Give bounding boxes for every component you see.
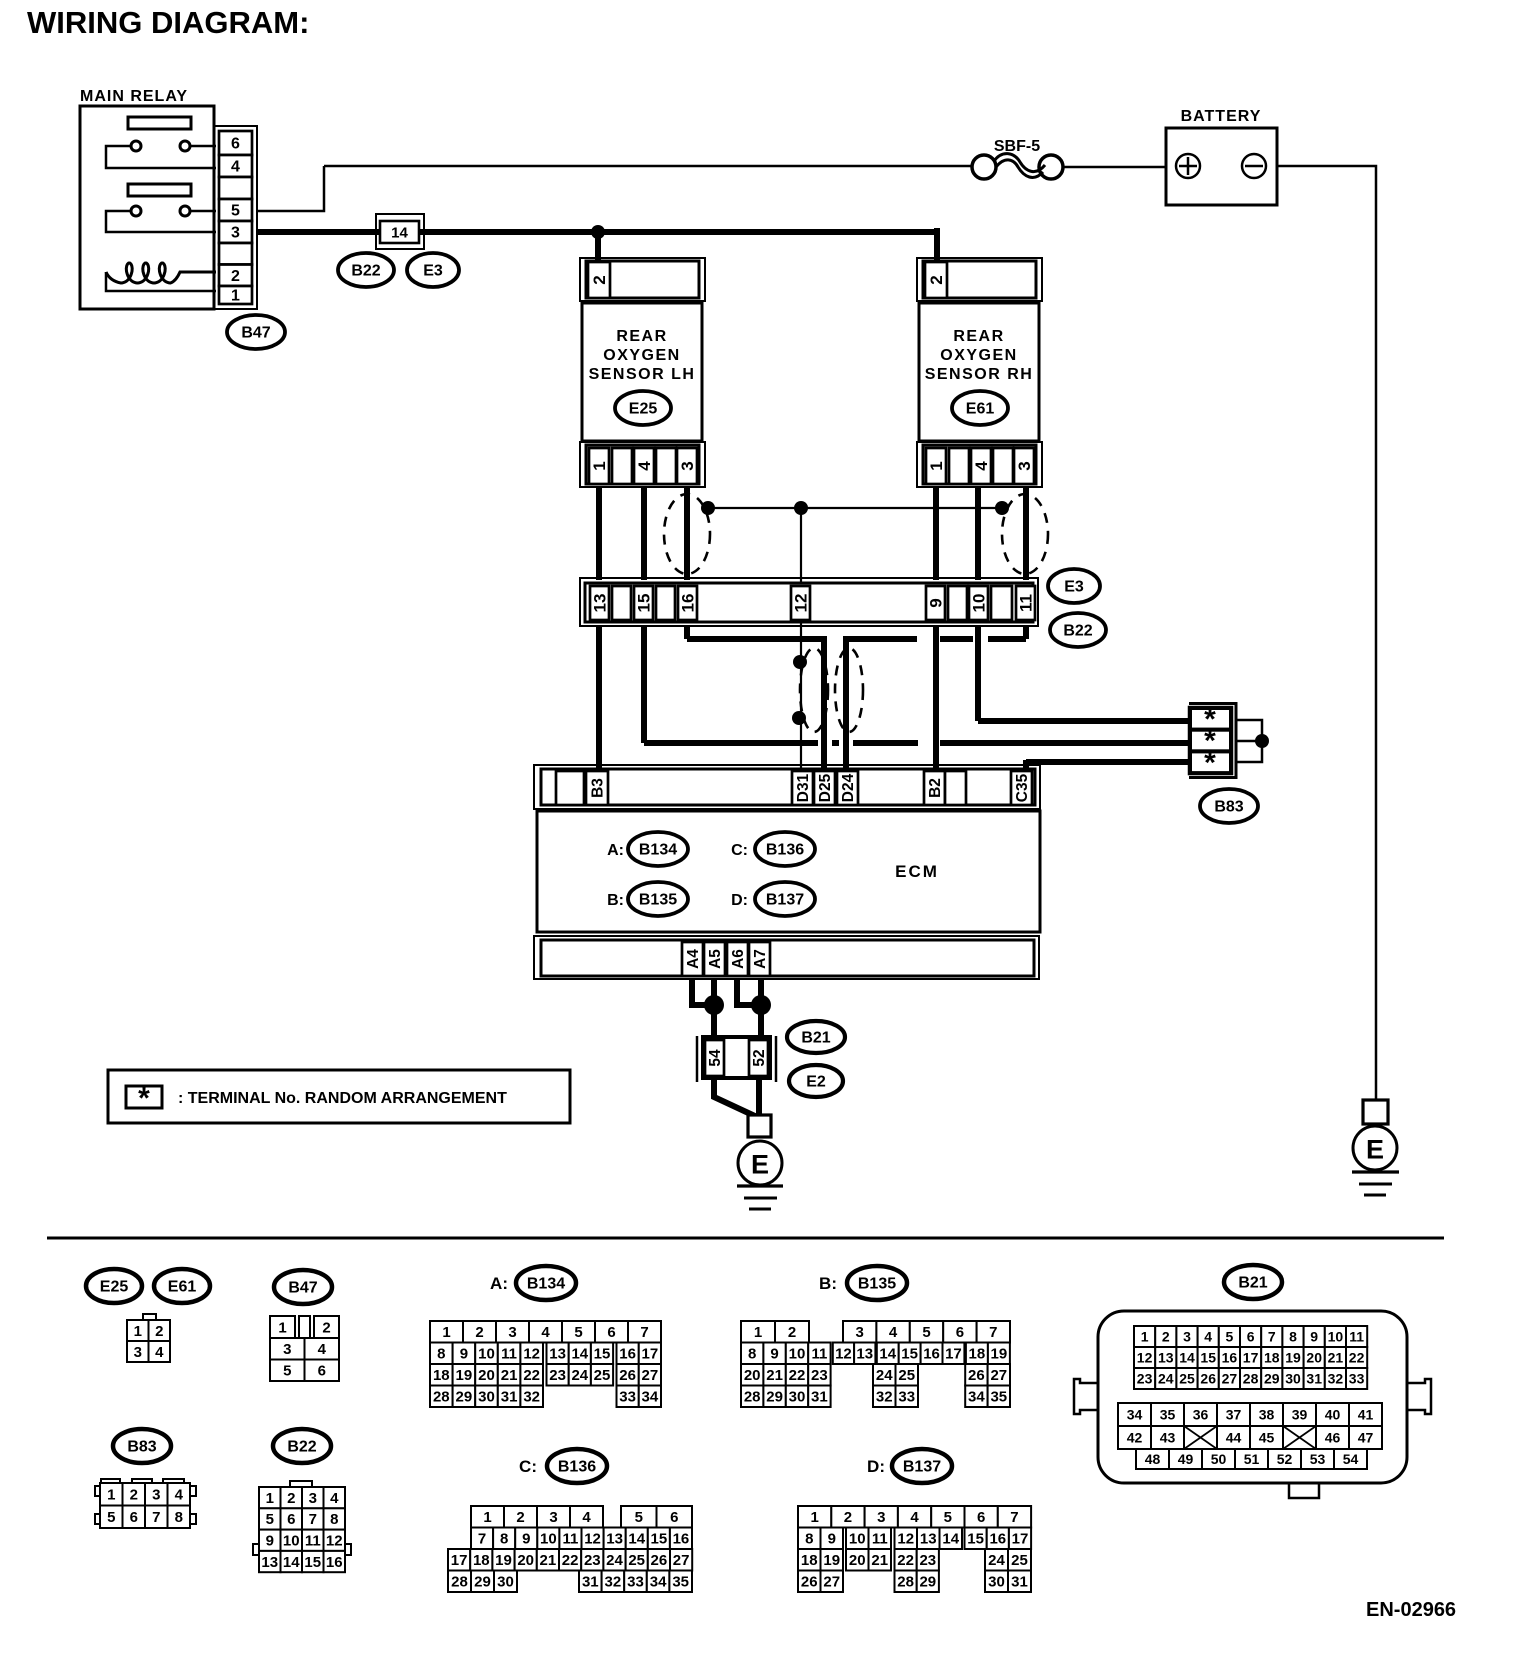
svg-text:15: 15	[594, 1346, 611, 1363]
wire LH pin1 to 13	[596, 487, 602, 580]
svg-text:17: 17	[451, 1552, 468, 1569]
svg-text:28: 28	[451, 1574, 468, 1591]
svg-text:D25: D25	[817, 773, 834, 802]
wire SBF-5 to battery	[1063, 166, 1166, 169]
connector label B47	[227, 315, 285, 349]
connector B83 random-arrangement pins	[1189, 702, 1238, 779]
svg-text:7: 7	[309, 1511, 317, 1528]
pinout grid B21	[1074, 1311, 1431, 1498]
svg-text:32: 32	[876, 1389, 893, 1406]
main relay box	[80, 106, 214, 309]
right ground E	[1352, 1124, 1399, 1195]
svg-text:12: 12	[897, 1531, 914, 1548]
svg-text:33: 33	[619, 1389, 636, 1406]
svg-text:32: 32	[523, 1389, 540, 1406]
svg-text:18: 18	[969, 1346, 986, 1363]
junction shield mid	[794, 501, 808, 515]
svg-text:35: 35	[672, 1574, 689, 1591]
svg-text:8: 8	[748, 1346, 756, 1363]
document number	[1366, 1599, 1456, 1621]
svg-text:3: 3	[549, 1509, 557, 1526]
svg-text:29: 29	[919, 1574, 936, 1591]
svg-text:8: 8	[175, 1509, 183, 1526]
svg-text:7: 7	[989, 1324, 997, 1341]
svg-text:19: 19	[1285, 1349, 1301, 1365]
svg-text:6: 6	[670, 1509, 678, 1526]
pinout label E25	[86, 1269, 142, 1303]
svg-text:E: E	[1366, 1134, 1384, 1164]
connector label E2	[789, 1065, 843, 1097]
svg-text:13: 13	[590, 594, 609, 613]
svg-text:36: 36	[1193, 1406, 1209, 1422]
svg-text:13: 13	[1158, 1349, 1174, 1365]
svg-text:41: 41	[1358, 1406, 1374, 1422]
connector label B22 mid	[1050, 613, 1106, 647]
svg-text:39: 39	[1292, 1406, 1308, 1422]
rear oxygen sensor RH E61	[917, 258, 1042, 487]
svg-text:8: 8	[805, 1531, 813, 1548]
svg-text:E3: E3	[423, 263, 443, 280]
svg-text:19: 19	[456, 1367, 473, 1384]
svg-text:12: 12	[791, 594, 810, 613]
ECM name	[895, 862, 939, 881]
svg-text:B3: B3	[589, 778, 606, 798]
svg-text:7: 7	[640, 1324, 648, 1341]
svg-text:27: 27	[1222, 1370, 1238, 1386]
svg-text:54: 54	[1343, 1451, 1359, 1467]
separator line	[47, 1237, 1444, 1240]
svg-text:25: 25	[898, 1367, 915, 1384]
wire C35 to B83 bottom	[1026, 760, 1192, 769]
fuse 14	[376, 214, 424, 249]
svg-text:24: 24	[876, 1367, 893, 1384]
svg-text:A5: A5	[707, 949, 724, 969]
svg-text:SENSOR LH: SENSOR LH	[589, 366, 696, 383]
wire 15 to B83 mid	[644, 626, 1192, 743]
right ground terminal box	[1363, 1100, 1388, 1124]
svg-text:24: 24	[606, 1552, 623, 1569]
svg-text:8: 8	[437, 1346, 445, 1363]
ECM body	[537, 811, 1040, 932]
svg-text:24: 24	[1158, 1370, 1174, 1386]
svg-text:38: 38	[1259, 1406, 1275, 1422]
svg-text:3: 3	[508, 1324, 516, 1341]
svg-text:2: 2	[155, 1323, 163, 1340]
svg-text:15: 15	[634, 594, 653, 613]
wire battery feed horizontal	[324, 165, 973, 168]
svg-text:B136: B136	[766, 842, 804, 859]
connector label B22	[338, 253, 394, 287]
svg-text:25: 25	[628, 1552, 645, 1569]
svg-text:49: 49	[1178, 1451, 1194, 1467]
svg-text:10: 10	[849, 1531, 866, 1548]
pinout grid B136	[448, 1506, 692, 1592]
svg-text:SENSOR RH: SENSOR RH	[925, 366, 1034, 383]
svg-text:27: 27	[673, 1552, 690, 1569]
junction feed split	[591, 225, 605, 239]
svg-text:B:: B:	[819, 1274, 837, 1293]
svg-text:1: 1	[231, 288, 240, 305]
svg-text:C35: C35	[1014, 773, 1031, 802]
svg-text:50: 50	[1211, 1451, 1227, 1467]
svg-text:B:: B:	[607, 892, 624, 909]
svg-text:34: 34	[642, 1389, 659, 1406]
svg-text:B83: B83	[127, 1439, 156, 1456]
shield oval D24	[835, 648, 863, 732]
svg-text:9: 9	[770, 1346, 778, 1363]
junction A6-A7	[751, 995, 771, 1015]
wire LH pin3 to 16	[684, 487, 690, 580]
junction shield RH	[995, 501, 1009, 515]
svg-text:B135: B135	[858, 1276, 896, 1293]
svg-text:42: 42	[1127, 1429, 1143, 1445]
svg-text:6: 6	[318, 1363, 326, 1380]
svg-text:52: 52	[1277, 1451, 1293, 1467]
svg-text:*: *	[138, 1082, 150, 1115]
connector label E3	[407, 253, 459, 287]
svg-text:B2: B2	[927, 778, 944, 798]
pinout label C:B136	[519, 1449, 607, 1483]
svg-text:4: 4	[231, 159, 240, 176]
svg-text:2: 2	[475, 1324, 483, 1341]
svg-text:: TERMINAL No. RANDOM ARRANGEM: : TERMINAL No. RANDOM ARRANGEMENT	[178, 1090, 507, 1107]
svg-text:14: 14	[879, 1346, 896, 1363]
svg-text:OXYGEN: OXYGEN	[603, 347, 680, 364]
svg-text:1: 1	[927, 461, 946, 470]
svg-text:4: 4	[910, 1509, 919, 1526]
svg-text:4: 4	[582, 1509, 591, 1526]
svg-text:15: 15	[967, 1531, 984, 1548]
svg-text:30: 30	[497, 1574, 514, 1591]
svg-text:E: E	[751, 1149, 769, 1179]
svg-text:37: 37	[1226, 1406, 1242, 1422]
svg-text:B137: B137	[903, 1459, 941, 1476]
svg-text:B47: B47	[288, 1280, 317, 1297]
svg-text:14: 14	[942, 1531, 959, 1548]
junction A4-A5	[704, 995, 724, 1015]
svg-text:16: 16	[619, 1346, 636, 1363]
svg-text:3: 3	[1015, 461, 1034, 470]
svg-text:3: 3	[231, 225, 240, 242]
wire RH pin3 to 11	[1023, 487, 1029, 580]
svg-text:28: 28	[1243, 1370, 1259, 1386]
svg-text:22: 22	[523, 1367, 540, 1384]
svg-text:8: 8	[330, 1511, 338, 1528]
svg-text:28: 28	[433, 1389, 450, 1406]
junction B83 link	[1255, 734, 1269, 748]
wire A7	[758, 979, 764, 1040]
svg-text:4: 4	[175, 1487, 184, 1504]
svg-text:9: 9	[266, 1533, 274, 1550]
svg-text:25: 25	[594, 1367, 611, 1384]
left ground terminal box	[748, 1115, 771, 1137]
shield oval D25	[800, 648, 828, 732]
svg-text:5: 5	[107, 1509, 115, 1526]
pinout grid B22	[253, 1481, 351, 1572]
svg-text:A:: A:	[490, 1274, 508, 1293]
svg-text:53: 53	[1310, 1451, 1326, 1467]
svg-text:1: 1	[810, 1509, 818, 1526]
svg-text:2: 2	[322, 1319, 330, 1336]
svg-text:32: 32	[605, 1574, 622, 1591]
ECM top pin strip	[534, 765, 1040, 809]
svg-text:18: 18	[473, 1552, 490, 1569]
svg-text:10: 10	[283, 1533, 300, 1550]
svg-text:B136: B136	[558, 1459, 596, 1476]
svg-text:A4: A4	[685, 949, 702, 969]
svg-text:ECM: ECM	[895, 862, 939, 881]
svg-text:27: 27	[642, 1367, 659, 1384]
svg-text:14: 14	[1179, 1349, 1195, 1365]
svg-text:9: 9	[828, 1531, 836, 1548]
junction shield LH	[701, 501, 715, 515]
svg-text:35: 35	[1160, 1406, 1176, 1422]
pinout grid B83	[95, 1479, 196, 1528]
svg-text:1: 1	[590, 461, 609, 470]
pinout label B21	[1224, 1265, 1282, 1299]
svg-text:11: 11	[1349, 1328, 1364, 1344]
svg-text:WIRING DIAGRAM:: WIRING DIAGRAM:	[27, 5, 309, 40]
wire A4	[692, 979, 710, 1005]
svg-text:29: 29	[766, 1389, 783, 1406]
svg-text:21: 21	[766, 1367, 783, 1384]
svg-text:2: 2	[788, 1324, 796, 1341]
svg-text:10: 10	[478, 1346, 495, 1363]
svg-text:19: 19	[991, 1346, 1008, 1363]
svg-text:10: 10	[789, 1346, 806, 1363]
svg-text:D:: D:	[731, 892, 748, 909]
svg-text:4: 4	[330, 1490, 339, 1507]
svg-text:29: 29	[456, 1389, 473, 1406]
svg-text:12: 12	[326, 1533, 343, 1550]
wire 54 to ground	[714, 1078, 757, 1117]
svg-text:29: 29	[1264, 1370, 1280, 1386]
svg-text:B22: B22	[351, 263, 380, 280]
svg-text:15: 15	[1200, 1349, 1216, 1365]
svg-text:21: 21	[501, 1367, 518, 1384]
svg-text:B47: B47	[241, 325, 270, 342]
svg-text:22: 22	[897, 1552, 914, 1569]
svg-text:30: 30	[1285, 1370, 1301, 1386]
pinout label B22	[273, 1429, 331, 1463]
svg-text:9: 9	[1310, 1328, 1318, 1344]
svg-text:17: 17	[642, 1346, 659, 1363]
svg-text:6: 6	[287, 1511, 295, 1528]
svg-text:33: 33	[898, 1389, 915, 1406]
svg-text:6: 6	[977, 1509, 985, 1526]
svg-text:2: 2	[130, 1487, 138, 1504]
pinout label E61	[154, 1269, 210, 1303]
relay connector B47 pin strip	[214, 126, 257, 309]
connector 54/52 B21-E2	[697, 1036, 776, 1082]
B83 right link	[1236, 720, 1262, 762]
wire A5	[711, 979, 717, 1040]
svg-text:REAR: REAR	[953, 328, 1004, 345]
svg-text:7: 7	[152, 1509, 160, 1526]
svg-text:D24: D24	[840, 773, 857, 802]
svg-text:2: 2	[287, 1490, 295, 1507]
svg-text:20: 20	[849, 1552, 866, 1569]
svg-text:20: 20	[478, 1367, 495, 1384]
wire RH pin4 to 10	[975, 487, 981, 580]
svg-text:44: 44	[1226, 1429, 1242, 1445]
svg-text:1: 1	[266, 1490, 274, 1507]
svg-text:5: 5	[574, 1324, 582, 1341]
svg-text:2: 2	[516, 1509, 524, 1526]
svg-text:9: 9	[926, 598, 945, 607]
svg-text:18: 18	[1264, 1349, 1280, 1365]
svg-text:48: 48	[1145, 1451, 1161, 1467]
svg-text:B134: B134	[639, 842, 677, 859]
svg-text:E61: E61	[966, 401, 995, 418]
svg-text:11: 11	[563, 1531, 579, 1548]
svg-text:E61: E61	[168, 1279, 197, 1296]
pinout grid E25/E61	[127, 1314, 170, 1362]
svg-text:6: 6	[231, 136, 240, 153]
svg-text:26: 26	[651, 1552, 668, 1569]
svg-text:B21: B21	[801, 1030, 830, 1047]
wire feed to sensor LH pin2	[595, 228, 601, 261]
svg-text:33: 33	[627, 1574, 644, 1591]
wire 16 to D25	[687, 626, 827, 769]
relay switch 2	[106, 206, 216, 232]
svg-text:4: 4	[635, 461, 654, 471]
svg-text:43: 43	[1160, 1429, 1176, 1445]
svg-text:17: 17	[1243, 1349, 1259, 1365]
svg-text:22: 22	[1349, 1349, 1365, 1365]
svg-text:8: 8	[500, 1531, 508, 1548]
connector label B21	[787, 1021, 845, 1053]
wire 13 to B3	[596, 626, 602, 769]
svg-text:3: 3	[152, 1487, 160, 1504]
svg-text:14: 14	[628, 1531, 645, 1548]
svg-text:35: 35	[990, 1389, 1007, 1406]
svg-text:14: 14	[391, 224, 408, 241]
svg-text:15: 15	[304, 1554, 321, 1571]
svg-text:17: 17	[1012, 1531, 1029, 1548]
svg-text:4: 4	[889, 1324, 898, 1341]
svg-text:E2: E2	[806, 1074, 826, 1091]
svg-text:31: 31	[1011, 1574, 1028, 1591]
svg-text:19: 19	[495, 1552, 512, 1569]
svg-text:MAIN RELAY: MAIN RELAY	[80, 88, 188, 105]
wire 10 to B83 top	[978, 626, 1192, 721]
svg-text:B22: B22	[1063, 623, 1092, 640]
svg-text:21: 21	[871, 1552, 888, 1569]
ECM connector B label	[607, 882, 688, 916]
wire relay pin3 main feed	[257, 229, 937, 235]
fuse SBF-5	[972, 138, 1063, 179]
svg-text:5: 5	[266, 1511, 274, 1528]
svg-text:5: 5	[922, 1324, 930, 1341]
svg-text:3: 3	[283, 1341, 291, 1358]
svg-text:52: 52	[751, 1049, 768, 1066]
svg-text:11: 11	[501, 1346, 517, 1363]
wire shield jumper	[708, 507, 1002, 509]
svg-text:1: 1	[442, 1324, 450, 1341]
svg-text:10: 10	[969, 594, 988, 613]
svg-text:29: 29	[474, 1574, 491, 1591]
svg-text:*: *	[1204, 746, 1216, 779]
svg-text:6: 6	[607, 1324, 615, 1341]
svg-text:13: 13	[920, 1531, 937, 1548]
relay contact bar upper	[128, 117, 191, 129]
shield oval LH	[664, 494, 710, 574]
wire 12 to D31	[800, 622, 802, 769]
svg-text:16: 16	[989, 1531, 1006, 1548]
svg-text:B137: B137	[766, 892, 804, 909]
svg-text:14: 14	[283, 1554, 300, 1571]
svg-text:25: 25	[1179, 1370, 1195, 1386]
svg-text:1: 1	[278, 1319, 286, 1336]
svg-text:12: 12	[523, 1346, 540, 1363]
svg-text:22: 22	[562, 1552, 579, 1569]
svg-text:45: 45	[1259, 1429, 1275, 1445]
wire feed to sensor RH pin2	[934, 228, 940, 261]
svg-text:7: 7	[1010, 1509, 1018, 1526]
svg-text:D31: D31	[795, 773, 812, 802]
svg-text:C:: C:	[731, 842, 748, 859]
svg-text:A6: A6	[730, 949, 747, 969]
relay coil	[106, 263, 216, 291]
pinout label B:B135	[819, 1266, 907, 1300]
main relay label	[80, 88, 188, 105]
svg-text:5: 5	[231, 203, 240, 220]
svg-text:16: 16	[1222, 1349, 1238, 1365]
svg-text:11: 11	[1016, 594, 1035, 612]
svg-text:REAR: REAR	[616, 328, 667, 345]
svg-text:OXYGEN: OXYGEN	[940, 347, 1017, 364]
svg-text:24: 24	[571, 1367, 588, 1384]
svg-text:12: 12	[835, 1346, 852, 1363]
svg-text:25: 25	[1011, 1552, 1028, 1569]
svg-text:10: 10	[540, 1531, 557, 1548]
svg-text:2: 2	[1162, 1328, 1170, 1344]
svg-text:24: 24	[988, 1552, 1005, 1569]
svg-text:18: 18	[801, 1552, 818, 1569]
svg-text:BATTERY: BATTERY	[1181, 108, 1262, 125]
svg-text:B22: B22	[287, 1439, 316, 1456]
svg-text:13: 13	[856, 1346, 873, 1363]
svg-text:26: 26	[968, 1367, 985, 1384]
svg-text:31: 31	[1306, 1370, 1322, 1386]
svg-text:E25: E25	[100, 1279, 129, 1296]
svg-text:23: 23	[811, 1367, 828, 1384]
svg-text:11: 11	[811, 1346, 827, 1363]
svg-text:A7: A7	[752, 949, 769, 969]
svg-text:32: 32	[1328, 1370, 1344, 1386]
wire battery to right ground	[1277, 166, 1376, 1100]
svg-text:18: 18	[433, 1367, 450, 1384]
wire RH pin1 to 9	[933, 487, 939, 580]
svg-text:A:: A:	[607, 842, 624, 859]
connector label E3 mid	[1048, 569, 1100, 603]
svg-text:26: 26	[1200, 1370, 1216, 1386]
svg-text:20: 20	[1306, 1349, 1322, 1365]
svg-text:E25: E25	[629, 401, 658, 418]
svg-text:23: 23	[1137, 1370, 1153, 1386]
svg-text:B134: B134	[527, 1276, 565, 1293]
svg-text:20: 20	[744, 1367, 761, 1384]
svg-text:15: 15	[651, 1531, 668, 1548]
svg-text:17: 17	[945, 1346, 962, 1363]
svg-text:3: 3	[856, 1324, 864, 1341]
wire 9 to B2	[933, 626, 939, 769]
svg-text:2: 2	[231, 268, 240, 285]
pinout grid B134	[430, 1321, 661, 1407]
svg-text:19: 19	[823, 1552, 840, 1569]
svg-text:27: 27	[823, 1574, 840, 1591]
